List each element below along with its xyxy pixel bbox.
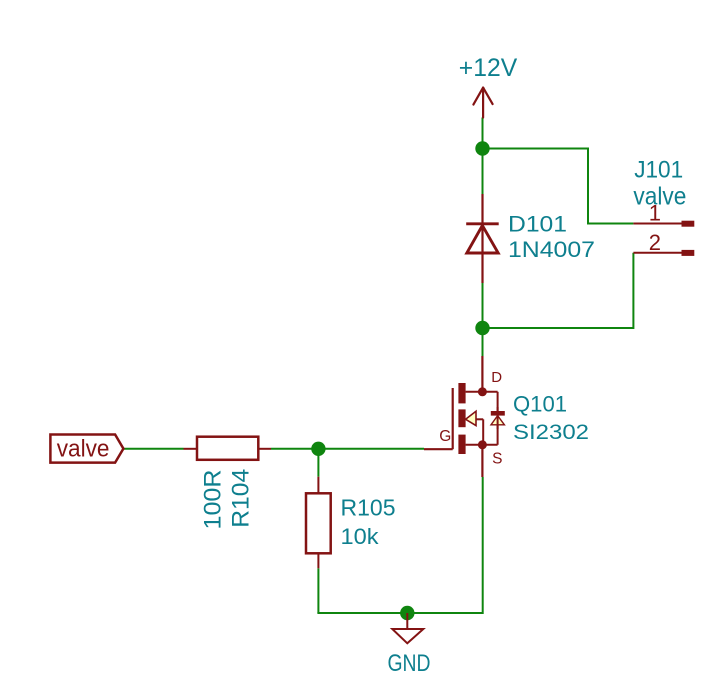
svg-text:2: 2 bbox=[649, 230, 661, 255]
svg-text:valve: valve bbox=[57, 436, 110, 463]
svg-text:D: D bbox=[491, 369, 502, 386]
svg-text:R104: R104 bbox=[228, 469, 255, 528]
svg-text:G: G bbox=[439, 428, 451, 445]
svg-text:1: 1 bbox=[649, 201, 661, 226]
svg-text:S: S bbox=[492, 451, 502, 468]
svg-text:SI2302: SI2302 bbox=[513, 420, 589, 444]
svg-text:D101: D101 bbox=[508, 212, 567, 237]
svg-text:10k: 10k bbox=[341, 524, 380, 549]
svg-text:GND: GND bbox=[388, 650, 431, 677]
svg-text:1N4007: 1N4007 bbox=[508, 237, 595, 262]
svg-text:100R: 100R bbox=[199, 470, 226, 530]
svg-text:J101: J101 bbox=[634, 157, 683, 184]
svg-text:R105: R105 bbox=[341, 495, 396, 521]
svg-text:+12V: +12V bbox=[459, 54, 518, 82]
svg-text:Q101: Q101 bbox=[513, 392, 567, 417]
